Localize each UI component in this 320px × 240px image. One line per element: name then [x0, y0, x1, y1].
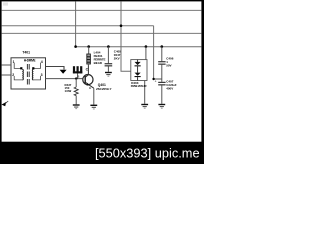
capacitor C405 lower lead: [107, 66, 109, 71]
ferrite bead lead: [88, 47, 90, 54]
node junction (153.6,79): [152, 78, 154, 80]
page background: [0, 0, 204, 164]
node junction base (76.2,78.6): [75, 77, 77, 79]
capacitor C407 plates: [158, 82, 165, 83]
ferrite bead lower lead: [88, 64, 90, 66]
svg-text:4: 4: [41, 60, 43, 64]
winding return left: [14, 76, 22, 80]
svg-text:[550x393] upic.me: [550x393] upic.me: [95, 145, 200, 160]
capacitor C405 lead: [107, 47, 109, 64]
node junction (161.8,46.6): [161, 45, 164, 48]
wire: vertical drop x=121: [121, 1, 131, 71]
svg-text:E: E: [89, 86, 91, 90]
winding coil right: [32, 69, 33, 79]
capacitor C406 lead: [161, 47, 163, 62]
ferrite bead FB401 body: [87, 54, 91, 64]
inductor (iron core) on base drive: [73, 66, 82, 73]
wire: D403 to ground: [144, 81, 146, 104]
node junction (121,25.7): [120, 24, 123, 27]
capacitor C405 plates: [105, 63, 113, 64]
core lines: [26, 64, 28, 87]
resistor R437 lead: [75, 79, 77, 87]
wire: bus line y=33.2: [2, 32, 202, 34]
svg-text:T401: T401: [22, 50, 30, 54]
diode D403 box: [131, 60, 147, 81]
resistor R437 zigzag: [74, 87, 78, 96]
svg-text:2SC2059-Y: 2SC2059-Y: [96, 87, 113, 91]
node junction (108.4,46.6): [107, 45, 110, 48]
wire: to D403 box: [145, 47, 147, 60]
svg-text:BEAD: BEAD: [94, 61, 103, 65]
node junction (88.7,46.6): [87, 45, 90, 48]
capacitor C407 lead: [161, 79, 163, 82]
wire: pin1 to left border: [2, 64, 11, 66]
Q401 base bar: [84, 76, 86, 84]
Q401 collector stroke: [85, 64, 88, 77]
transformer T401 box: [11, 58, 46, 89]
faint smudge top-left: [3, 2, 8, 5]
wire: bus line y=10: [2, 9, 202, 11]
resistor R437 lead lower: [75, 96, 77, 105]
diode D403 symbol (dual): [137, 60, 139, 62]
wire: pin3 to Q401 base: [46, 78, 83, 80]
winding return right: [33, 76, 40, 80]
wire: pin2 to left border: [2, 74, 11, 76]
svg-text:H-DRIVE: H-DRIVE: [24, 59, 35, 63]
ground C405: [105, 72, 112, 77]
winding dot right: [32, 67, 34, 69]
ground C407: [158, 104, 165, 109]
winding dot left: [20, 67, 22, 69]
page border left: [0, 0, 2, 164]
node junction (145.9,46.6): [145, 45, 148, 48]
capacitor C406 plates: [158, 61, 165, 62]
svg-text:FMW-20SUR: FMW-20SUR: [131, 84, 147, 88]
winding coil left: [22, 69, 23, 79]
watermark bar: [0, 142, 204, 164]
svg-text:1/4W: 1/4W: [65, 89, 72, 93]
capacitor C406 lower lead: [161, 65, 163, 79]
svg-text:400V: 400V: [166, 87, 173, 91]
Q401 emitter arrow: [87, 83, 90, 86]
wire: pin4 out right: [46, 67, 65, 70]
wire: bus line y=25.7: [2, 25, 154, 27]
svg-text:+: +: [155, 80, 157, 84]
wire: vertical drop x=153.6: [153, 26, 155, 79]
wire: vertical drop x=75.6: [75, 1, 77, 46]
svg-text:2KV: 2KV: [114, 56, 120, 60]
Q401 emitter stroke: [85, 82, 94, 88]
page border right: [201, 0, 204, 142]
arrow at pin4 wire end: [60, 70, 67, 74]
page border top: [0, 0, 204, 1]
winding stub right: [33, 63, 41, 69]
wire: node y=79: [154, 78, 162, 80]
transistor Q401 circle: [83, 75, 93, 85]
off-page arrow left: [2, 102, 7, 106]
svg-text:50V: 50V: [166, 64, 171, 68]
wire: emitter down: [93, 88, 95, 104]
ground emitter: [90, 105, 97, 110]
stub from inductor to base wire: [77, 73, 79, 78]
ground R437: [73, 104, 80, 109]
node junction (75.6,46.6): [74, 45, 77, 48]
winding stub left: [14, 63, 21, 69]
capacitor C407 lower lead: [161, 85, 163, 103]
wire: supply rail y=46.6: [76, 46, 202, 48]
ground D403: [141, 104, 148, 109]
